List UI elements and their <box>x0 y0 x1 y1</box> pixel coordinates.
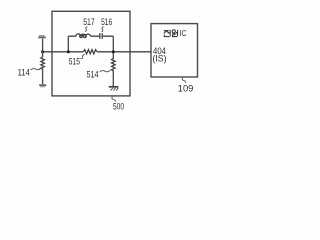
pad terminal above 114 <box>38 35 46 38</box>
leader for 517 <box>85 27 87 32</box>
resistor 515 zigzag <box>83 50 97 54</box>
resistor 114 zigzag <box>41 57 45 69</box>
svg-text:517: 517 <box>83 17 95 27</box>
node junction dot left of network <box>67 50 70 53</box>
wire: main horizontal net at y=51.8 from node of 114 branch to IC pin 404 <box>43 51 151 53</box>
svg-text:515: 515 <box>69 56 80 66</box>
node junction dot right of network <box>112 50 115 53</box>
leader for 515 <box>80 54 84 58</box>
power IC block 109 outline <box>151 24 198 77</box>
pad terminal below 114 <box>39 84 46 87</box>
leader for 514 <box>100 70 111 72</box>
wire: vertical branch through resistor 114 <box>42 39 44 85</box>
svg-text:516: 516 <box>101 17 112 27</box>
svg-text:500: 500 <box>113 102 124 112</box>
leader for 516 <box>102 27 104 32</box>
svg-text:514: 514 <box>87 70 99 80</box>
leader for 109 <box>182 78 186 83</box>
ground symbol below 514 <box>109 87 119 91</box>
resistor 514 zigzag vertical with leads <box>112 52 116 87</box>
wire: top branch horizontal segments <box>68 35 113 37</box>
inductor 517 coil humps <box>76 34 91 36</box>
leader for 114 <box>31 68 41 70</box>
svg-text:109: 109 <box>178 84 194 94</box>
capacitor 516 plates <box>100 33 102 39</box>
svg-text:114: 114 <box>18 68 30 78</box>
block title: hangul 원 (won) <box>172 30 178 37</box>
block title: hangul 전 (jeon) <box>164 30 170 37</box>
svg-text:IC: IC <box>180 29 187 38</box>
wire: vertical left stub of parallel network <box>67 36 69 52</box>
inductor 517 loop rings <box>80 35 87 38</box>
svg-text:(IS): (IS) <box>153 54 167 64</box>
node junction dot at 114 branch <box>41 50 44 53</box>
block 500 outline <box>52 11 130 96</box>
wire: vertical right stub of parallel network <box>112 36 114 52</box>
leader for 500 <box>112 97 116 102</box>
